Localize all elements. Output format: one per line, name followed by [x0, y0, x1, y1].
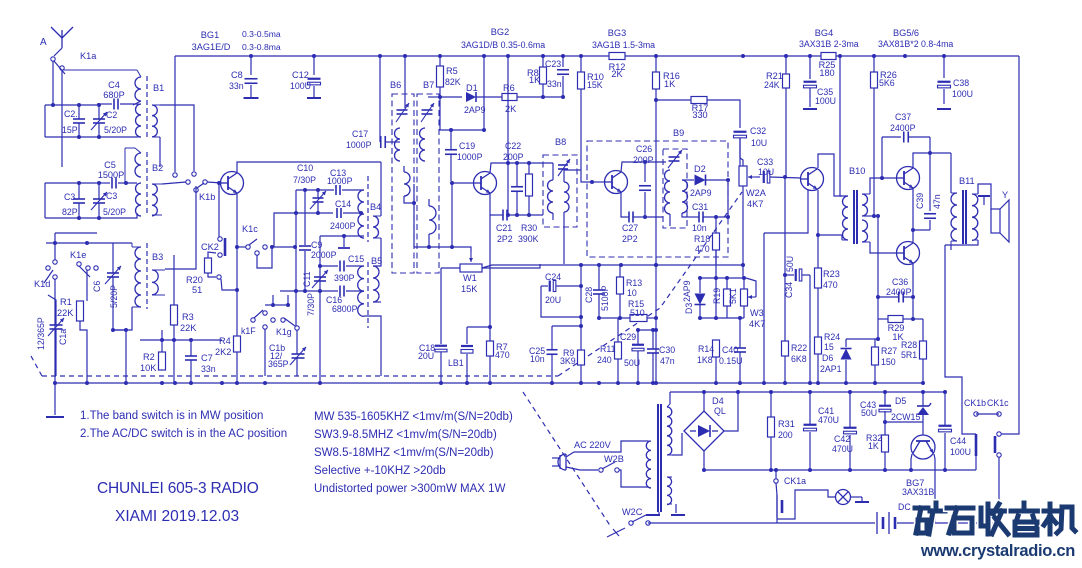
svg-text:XIAMI 2019.12.03: XIAMI 2019.12.03 — [115, 508, 239, 525]
capacitor C35 electrolytic — [804, 56, 817, 107]
svg-text:R3: R3 — [182, 312, 194, 322]
capacitor C9 — [299, 190, 311, 250]
svg-text:470U: 470U — [832, 444, 853, 454]
wire dashed link to volume pot — [558, 192, 742, 376]
label K1c — [242, 224, 258, 234]
svg-text:2K: 2K — [611, 69, 623, 79]
label BG1 current 0.3-0.5ma — [242, 29, 281, 39]
jack CK2 — [218, 237, 225, 257]
label BG1 — [201, 30, 219, 40]
svg-text:2K2: 2K2 — [215, 347, 231, 357]
svg-text:470: 470 — [695, 244, 710, 254]
svg-text:DC: DC — [898, 502, 911, 512]
label DC — [898, 502, 911, 512]
wire BG1 base — [207, 182, 222, 183]
wire W3 wiper up — [746, 278, 756, 297]
svg-text:33n: 33n — [547, 79, 562, 89]
label C2. — [64, 109, 78, 119]
label C12 — [292, 70, 309, 80]
switch K1c — [237, 239, 274, 255]
trimmer arrow B9 — [668, 150, 682, 168]
label C34 rotated — [784, 282, 794, 298]
label R16 — [663, 71, 680, 81]
wire R11 bottom — [617, 359, 619, 383]
label D1 — [466, 83, 478, 93]
resistor R2 — [159, 352, 166, 370]
capacitor C39 — [913, 153, 936, 230]
label R10 value 15K — [587, 80, 603, 90]
svg-text:6800P: 6800P — [332, 304, 358, 314]
resistor R23 — [815, 268, 822, 288]
wire C9 bottom — [304, 251, 306, 291]
resistor R26 — [871, 72, 878, 88]
switch K1d — [44, 266, 57, 283]
potentiometer W2A — [739, 166, 756, 186]
label R9 value 3K9 — [560, 356, 576, 366]
watermark chinese char ji — [1044, 504, 1075, 534]
transistor BG7 — [911, 422, 935, 459]
label R13 — [626, 278, 642, 288]
label B7 — [423, 80, 434, 90]
label K1a — [80, 51, 97, 61]
label C39 rotated — [915, 193, 925, 209]
note 2 acdc switch — [80, 428, 287, 440]
label D6 — [822, 353, 833, 363]
wire K1d drop — [54, 279, 56, 383]
label R23 — [823, 269, 840, 279]
label W2A value 4K7 — [747, 199, 763, 209]
wire BG4 emitter — [764, 190, 808, 233]
svg-text:C5: C5 — [104, 160, 116, 170]
svg-text:100U: 100U — [815, 96, 836, 106]
label C6 — [92, 281, 102, 292]
label D3 rotated — [684, 303, 694, 314]
wire band switch link — [265, 304, 290, 306]
potentiometer W3 — [741, 289, 757, 306]
variable capacitor C1a — [48, 310, 64, 345]
junction dots band link — [271, 303, 290, 307]
label C42 value 470U — [832, 444, 853, 454]
wire B10 return — [818, 235, 842, 240]
junction dots det mid — [597, 316, 622, 320]
transformer B1 core — [146, 76, 148, 137]
junction dot C37 base — [880, 176, 884, 180]
junction dots on ground bus — [53, 381, 925, 385]
label R2 — [143, 352, 155, 362]
label CK1b — [964, 398, 986, 408]
junction dot BG2 feed — [482, 128, 486, 132]
svg-text:C11: C11 — [302, 271, 312, 287]
wire C25 branch — [552, 325, 581, 327]
label C9 value 2000P — [311, 250, 337, 260]
switch K1b contact — [173, 173, 177, 177]
label C3 value 82P — [62, 207, 78, 217]
label W2C — [622, 507, 643, 517]
label BG7 — [906, 478, 924, 488]
svg-text:C30: C30 — [659, 345, 675, 355]
label C1b — [269, 343, 285, 353]
label C12 value 100U — [290, 81, 311, 91]
shield stub — [338, 234, 350, 248]
wire R13 bottom — [619, 294, 621, 318]
capacitor C36 — [878, 292, 913, 303]
svg-text:R28: R28 — [901, 340, 917, 350]
capacitor C43 electrolytic — [879, 392, 891, 422]
label B2 — [152, 163, 163, 173]
wire tank top — [45, 104, 97, 106]
label D2 type 2AP9 — [690, 188, 712, 198]
label R21 — [766, 71, 783, 81]
svg-text:C42: C42 — [834, 434, 850, 444]
watermark url — [920, 542, 1075, 560]
label W2A — [746, 188, 767, 198]
transformer B4 left winding — [358, 190, 364, 238]
transformer B2 secondary winding — [136, 183, 142, 216]
label C35 — [817, 87, 833, 97]
B8 primary winding — [548, 180, 554, 213]
svg-text:R22: R22 — [791, 343, 807, 353]
B6 lower winding — [404, 166, 410, 196]
junction dot R17 — [654, 98, 658, 102]
label B3 — [152, 252, 163, 262]
transistor BG4 — [801, 168, 824, 191]
label C43 value 50U — [861, 408, 877, 418]
resistor R10 — [578, 72, 585, 89]
label R19 value 5K1 — [728, 288, 738, 304]
label C3 trimmer — [106, 191, 117, 201]
label C2 trimmer value — [104, 125, 127, 135]
svg-text:470: 470 — [823, 280, 838, 290]
label C18 — [419, 343, 435, 353]
wire R17 to C32 — [707, 100, 740, 128]
label D1 type 2AP9 — [464, 105, 486, 115]
wire CK2 to BG1 base — [218, 183, 220, 237]
junction dots audio takeoff — [160, 338, 193, 342]
junction dots on lower power bus — [702, 468, 947, 472]
trimmer arrow B7 — [421, 103, 434, 122]
wire osc coil feed — [645, 216, 663, 218]
label W2B — [604, 454, 624, 464]
diode D6 — [841, 339, 852, 383]
wire R26 bottom — [873, 88, 875, 216]
label C8 — [231, 70, 243, 80]
junction dots BG3 osc — [643, 160, 647, 219]
ground bar below C38 — [937, 108, 951, 110]
wire B4-B5 link — [373, 238, 381, 266]
resistor R27 — [872, 347, 879, 365]
watermark chinese char kuang — [915, 503, 945, 534]
svg-text:22K: 22K — [57, 308, 74, 318]
IF transformer B7 box — [417, 94, 439, 273]
wire BG1 emitter — [236, 193, 238, 290]
svg-text:B3: B3 — [152, 252, 163, 262]
wire D2 out — [727, 180, 729, 217]
contact k1F lower — [263, 325, 267, 329]
label C40 value 0.15U — [719, 356, 742, 366]
capacitor C31 — [687, 212, 728, 223]
svg-text:MW 535-1605KHZ <1mv/m(S/N=20db: MW 535-1605KHZ <1mv/m(S/N=20db) — [314, 411, 513, 423]
wire B3 top feed — [110, 242, 132, 244]
svg-text:www.crystalradio.cn: www.crystalradio.cn — [920, 542, 1075, 560]
spec power — [314, 483, 506, 495]
capacitor C34 electrolytic — [785, 269, 810, 281]
trimmer capacitor C10 — [310, 190, 326, 213]
label C27 value 2P2 — [622, 234, 638, 244]
label R32 value 1K — [868, 441, 879, 451]
wire R29 left — [878, 318, 888, 320]
wire R7 bottom — [489, 356, 491, 383]
svg-text:2.The AC/DC switch is in the A: 2.The AC/DC switch is in the AC position — [80, 428, 287, 440]
capacitor C32 electrolytic — [734, 132, 747, 172]
wire B8 primary bottom — [552, 213, 554, 220]
svg-text:10n: 10n — [530, 354, 545, 364]
svg-text:C14: C14 — [335, 199, 351, 209]
transformer B3 main winding — [132, 243, 141, 307]
junction dot B6 link — [412, 201, 416, 205]
wire B10 tap — [864, 215, 878, 217]
wire CK1a bottom — [776, 518, 778, 523]
svg-text:A: A — [40, 37, 47, 48]
label B8 — [555, 137, 566, 147]
wire BG2 emitter — [490, 193, 495, 215]
wire B11 tap down — [950, 245, 952, 250]
junction dot mid — [911, 151, 932, 232]
wire W2A bottom — [742, 186, 744, 265]
capacitor C4 — [97, 99, 137, 110]
svg-text:C9: C9 — [311, 240, 322, 250]
wire BG6 base — [870, 242, 896, 253]
svg-text:0.3-0.5ma: 0.3-0.5ma — [242, 29, 281, 39]
wire bias node — [846, 338, 878, 340]
svg-text:330: 330 — [692, 110, 707, 120]
transformer B1 secondary winding — [136, 104, 142, 137]
ground bar below C12 — [307, 97, 321, 99]
wire bottom ground bus — [55, 382, 923, 384]
label R7 — [496, 342, 508, 352]
wire R30 bottom — [528, 196, 530, 215]
label C19 — [459, 141, 475, 151]
junction dot C25 — [579, 324, 583, 328]
svg-text:1K: 1K — [664, 79, 676, 89]
label R19 rotated — [712, 288, 722, 304]
wire B11 top feed — [950, 153, 952, 193]
variable capacitor C1b — [290, 330, 306, 376]
junction dot fb — [876, 295, 915, 321]
watermark chinese char shi — [947, 508, 973, 533]
jack CK1b contact — [974, 412, 978, 416]
label k1F — [241, 326, 256, 336]
label C2 value 15P — [62, 125, 78, 135]
switch K1e — [53, 260, 98, 277]
label CK1a — [784, 476, 806, 486]
label D3 type 2AP9 — [682, 280, 692, 302]
wire R10 to base — [581, 89, 588, 182]
label C36 value 2400P — [886, 287, 912, 297]
svg-text:C8: C8 — [231, 70, 243, 80]
svg-text:R18: R18 — [694, 234, 710, 244]
wire AC live — [566, 441, 648, 457]
wire power section lower bus — [704, 469, 976, 471]
svg-text:CK2: CK2 — [201, 242, 219, 252]
wire C32 to W2A — [740, 138, 743, 166]
IF transformer B6 box — [392, 94, 414, 273]
wire BG2 base — [452, 182, 473, 184]
wire W3 top — [743, 278, 745, 289]
wire R26 top — [873, 56, 875, 72]
transformer B11 core — [963, 190, 966, 244]
wire left ground drop — [54, 383, 56, 415]
transformer B5 right winding — [373, 266, 379, 302]
trimmer capacitor C6 — [105, 243, 121, 330]
label R8 — [527, 68, 539, 78]
junction dots B3 — [111, 328, 128, 332]
label C37 — [895, 112, 911, 122]
svg-text:C27: C27 — [622, 223, 638, 233]
wire D4 plus — [703, 392, 705, 411]
wire B1 to rail — [174, 56, 176, 172]
wire R28 top — [922, 319, 924, 341]
svg-text:LB1: LB1 — [448, 358, 464, 368]
svg-text:Y: Y — [1002, 190, 1008, 200]
wire R20 to emitter — [221, 279, 237, 290]
svg-text:200P: 200P — [503, 152, 524, 162]
oscillator coil box in B9 — [663, 149, 687, 228]
wire band link stub2 — [287, 295, 289, 305]
svg-text:C31: C31 — [692, 202, 708, 212]
label R12 — [609, 62, 626, 72]
wire tank bottom — [45, 136, 137, 138]
transistor BG6 — [897, 242, 920, 265]
svg-text:W2C: W2C — [622, 507, 643, 517]
transformer B10 secondary upper — [862, 194, 870, 216]
svg-text:D1: D1 — [466, 83, 478, 93]
wire R32 bottom — [884, 452, 886, 470]
wire BG5 collector — [913, 153, 951, 168]
wire W3 bottom — [743, 306, 745, 318]
wire osc left drop — [295, 190, 297, 326]
wire switch feed — [46, 242, 110, 244]
label C25 value 10n — [530, 354, 545, 364]
wire R4 bottom — [236, 352, 238, 383]
transformer B5 core — [367, 262, 369, 328]
svg-text:100U: 100U — [290, 81, 311, 91]
resistor R1 — [77, 301, 84, 321]
label BG4 — [815, 28, 833, 38]
wire W2A wiper — [756, 176, 760, 178]
svg-text:R4: R4 — [219, 336, 231, 346]
wire C1a bottom — [55, 345, 57, 376]
wire regulator node — [885, 421, 923, 423]
label C8 value 33n — [229, 81, 244, 91]
svg-text:K1a: K1a — [80, 51, 97, 61]
resistor R25 — [821, 53, 836, 60]
wire R30 leads — [528, 163, 530, 174]
label C44 — [950, 436, 966, 446]
resistor R16 — [653, 72, 660, 89]
svg-text:7/30P: 7/30P — [306, 293, 316, 316]
label R11 value 240 — [597, 355, 612, 365]
svg-text:K1e: K1e — [70, 250, 86, 260]
wire R29 right — [903, 318, 913, 320]
label C42 — [834, 434, 850, 444]
label C1a value 12/365P — [36, 317, 46, 350]
wire R21 bottom — [785, 88, 787, 177]
capacitor C7 — [185, 340, 197, 383]
label C37 value 2400P — [890, 123, 916, 133]
capacitor C17 — [381, 136, 400, 148]
svg-text:2400P: 2400P — [890, 123, 916, 133]
wire BG5 base — [870, 178, 896, 194]
wire R18 bottom — [715, 250, 717, 264]
wire CK1c down — [998, 457, 1000, 523]
label W1 value 15K — [461, 284, 478, 294]
wire B5 right lead — [373, 301, 381, 303]
wire R19 bottom — [726, 306, 728, 318]
resistor R3 — [171, 305, 178, 325]
svg-text:B1: B1 — [153, 83, 164, 93]
label R27 — [881, 346, 897, 356]
label C10 — [297, 163, 313, 173]
svg-text:CK1a: CK1a — [784, 476, 806, 486]
junction dot K1c — [235, 245, 297, 249]
label C39 value 47n — [932, 194, 942, 209]
svg-text:D4: D4 — [712, 396, 724, 406]
wire R3 bottom — [173, 325, 175, 383]
wire D4 bottom — [703, 451, 705, 470]
wire W2B out — [619, 470, 648, 487]
wire MW tank left — [44, 183, 46, 218]
label R22 — [791, 343, 807, 353]
diode D3 — [695, 278, 706, 318]
junction dots antenna tank — [51, 103, 101, 139]
label C21 value 2P2 — [497, 234, 513, 244]
label C26 value 200P — [633, 155, 654, 165]
wire AGC rail — [482, 265, 743, 278]
transformer B11 secondary — [972, 194, 978, 240]
transformer B1 coupling winding — [152, 105, 160, 137]
svg-text:D5: D5 — [895, 396, 906, 406]
junction dot R21 — [783, 175, 787, 179]
transistor BG3 — [605, 171, 628, 194]
wire top supply rail — [175, 55, 1019, 57]
wire osc right coil out — [682, 213, 687, 217]
label B1 — [153, 83, 164, 93]
wire BG2 collector — [490, 163, 553, 173]
transformer B10 core — [854, 190, 857, 244]
capacitor C13 — [336, 185, 364, 195]
B9 oscillator winding left — [665, 170, 671, 214]
transformer B1 primary winding — [62, 70, 141, 105]
wire R11 leads — [617, 318, 619, 342]
trimmer capacitor C11 — [312, 270, 328, 288]
trimmer arrow B6 — [396, 103, 409, 122]
title CHUNLEI 605-3 RADIO — [97, 480, 259, 497]
svg-text:390P: 390P — [334, 273, 355, 283]
label R5 — [446, 66, 458, 76]
capacitor C24 electrolytic — [541, 281, 581, 292]
svg-text:82P: 82P — [62, 207, 78, 217]
wire R14 bottom — [715, 357, 717, 383]
svg-text:15P: 15P — [62, 125, 78, 135]
svg-text:B2: B2 — [152, 163, 163, 173]
label R3 — [182, 312, 194, 322]
B9 oscillator winding right — [682, 180, 688, 213]
svg-text:CK1b: CK1b — [964, 398, 986, 408]
jack CK1b — [975, 434, 978, 470]
wire R9 riser — [580, 265, 582, 350]
svg-text:B8: B8 — [555, 137, 566, 147]
svg-text:1K: 1K — [529, 75, 541, 85]
